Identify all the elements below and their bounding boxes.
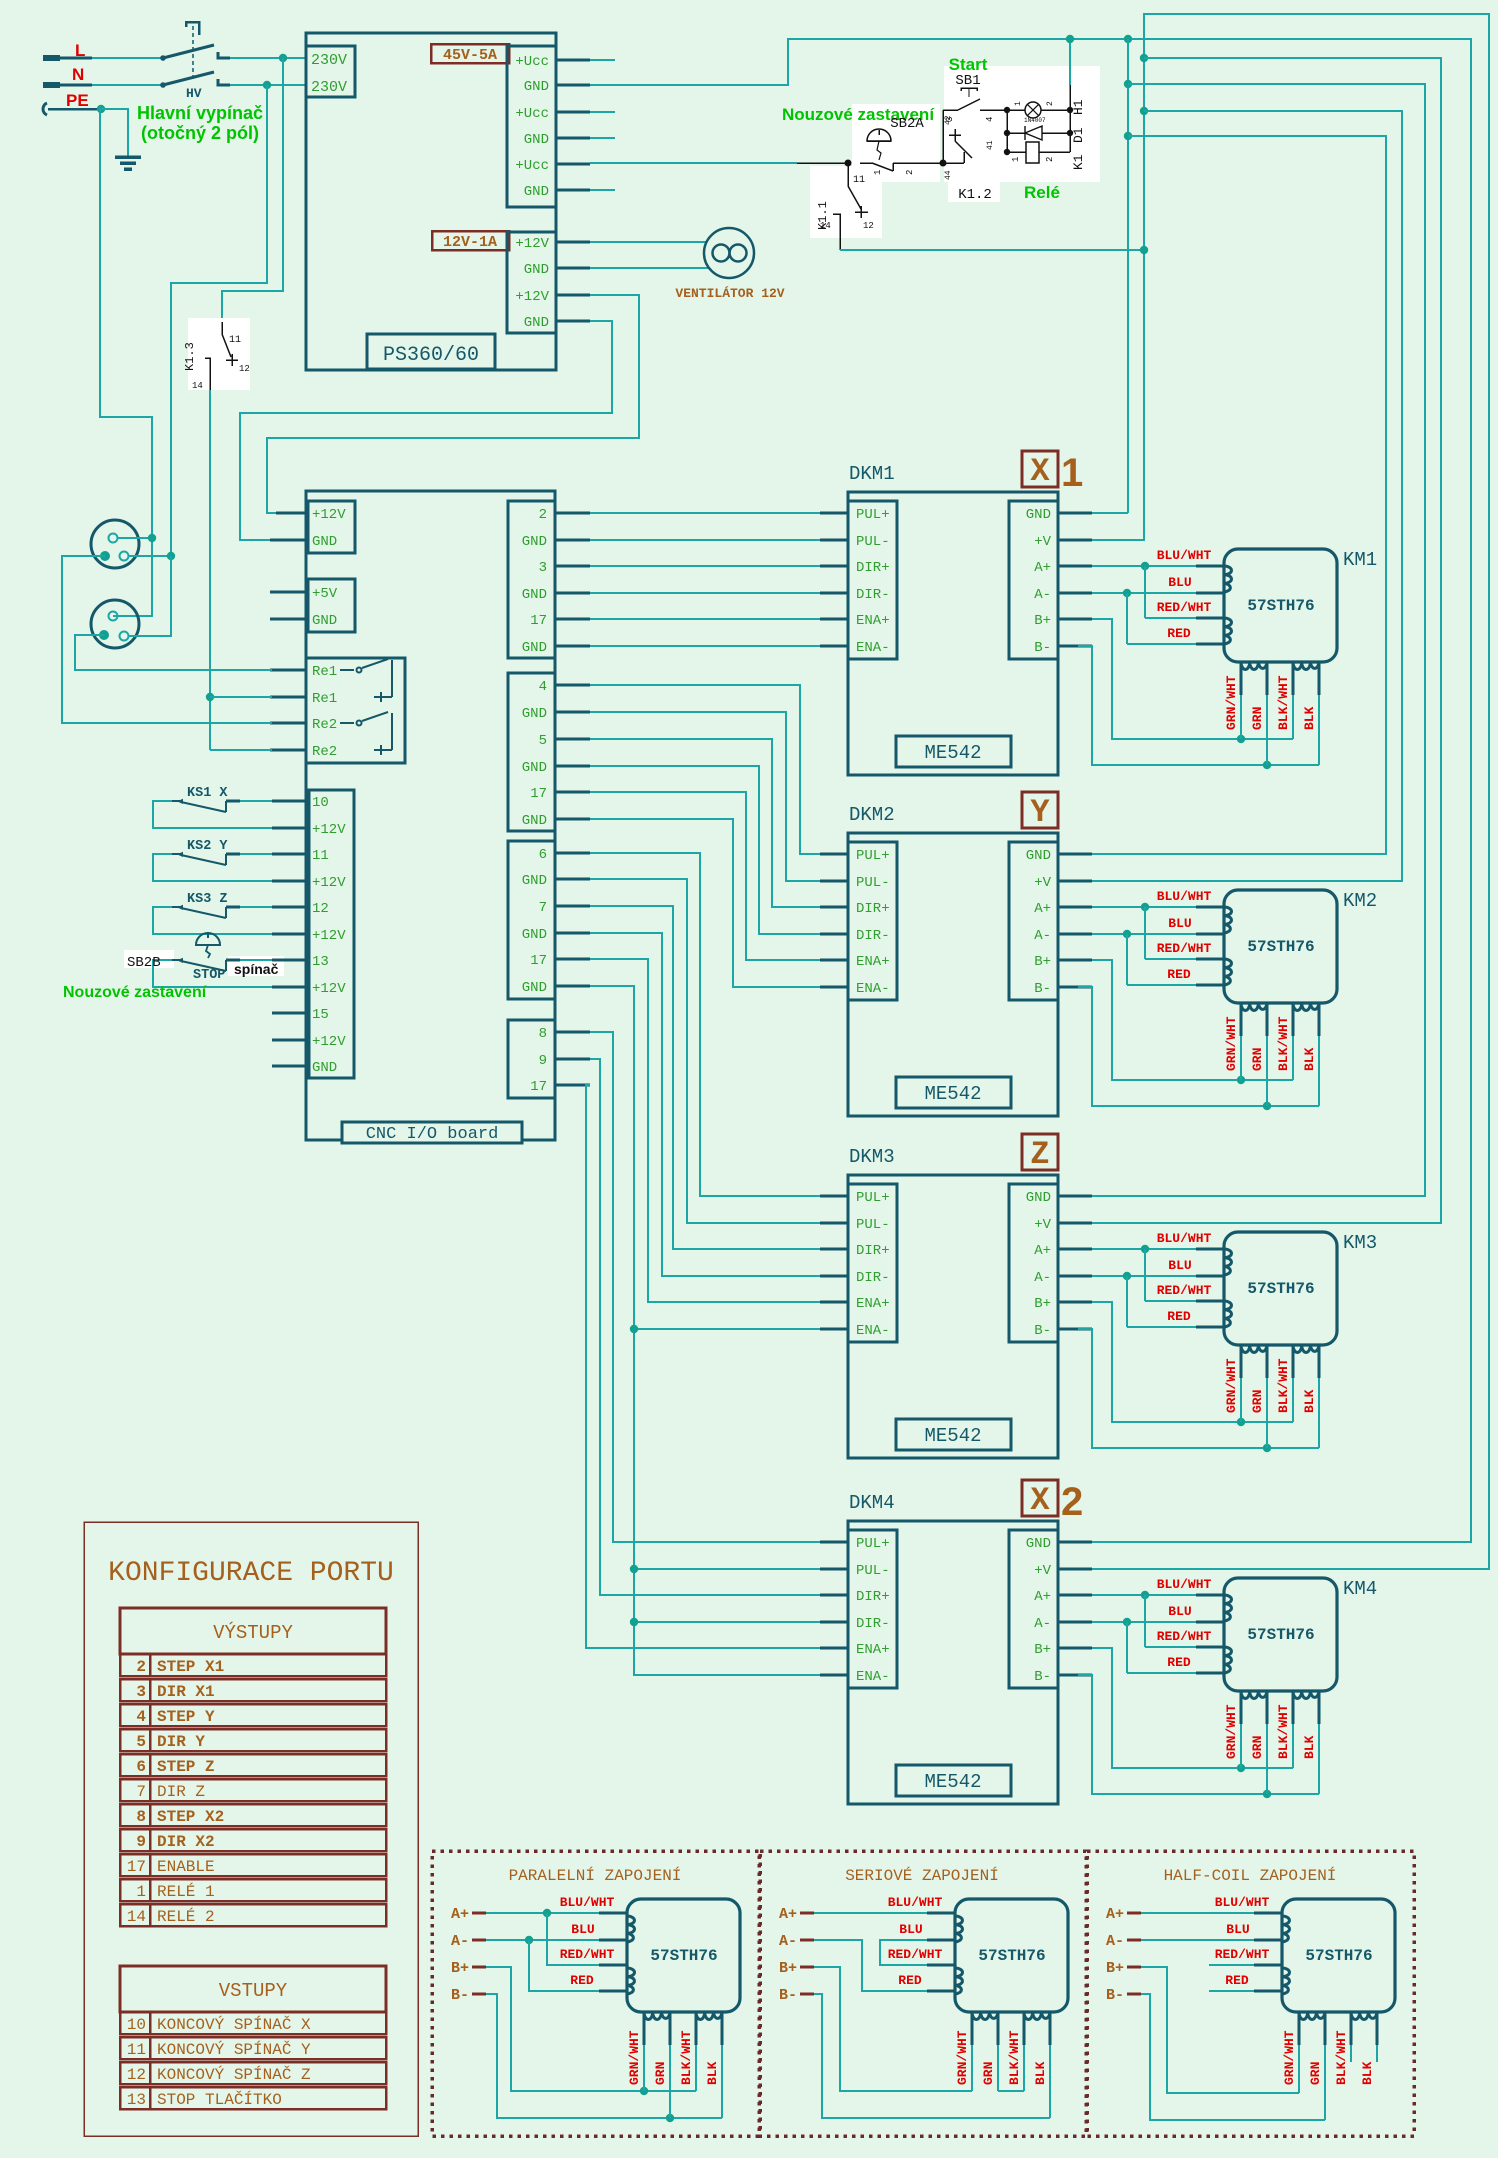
svg-text:A+: A+ bbox=[1106, 1906, 1124, 1923]
svg-text:57STH76: 57STH76 bbox=[1305, 1947, 1372, 1965]
wire motor BLK lead bbox=[1318, 662, 1321, 695]
svg-text:spínač: spínač bbox=[234, 961, 279, 977]
svg-text:230V: 230V bbox=[311, 79, 347, 96]
svg-text:B+: B+ bbox=[1106, 1960, 1124, 1977]
svg-text:RED: RED bbox=[1167, 1309, 1191, 1324]
wire output 933 to DKM3 1276 bbox=[590, 933, 820, 1276]
wire GND stub 2 bbox=[590, 137, 615, 139]
wire output 819 to DKM2 987 bbox=[590, 819, 820, 987]
svg-text:GND: GND bbox=[312, 534, 337, 550]
junction variant1 B- bbox=[666, 2114, 674, 2122]
svg-text:5: 5 bbox=[539, 733, 547, 749]
wire L input bbox=[43, 55, 60, 61]
wire variant1 motor lead bbox=[669, 2012, 672, 2045]
junction N branch bbox=[263, 81, 271, 89]
wire variant1 A- branch bbox=[529, 1940, 599, 1991]
svg-text:GND: GND bbox=[522, 706, 547, 722]
pushbutton SB2A emergency stop bbox=[867, 129, 891, 141]
svg-text:Re1: Re1 bbox=[312, 664, 337, 680]
svg-text:H1: H1 bbox=[1071, 99, 1086, 115]
svg-text:GRN: GRN bbox=[1250, 1048, 1265, 1071]
svg-text:SERIOVÉ ZAPOJENÍ: SERIOVÉ ZAPOJENÍ bbox=[845, 1866, 999, 1885]
wire B+ bus bbox=[1089, 1647, 1091, 1649]
svg-text:11: 11 bbox=[312, 848, 329, 864]
svg-text:15: 15 bbox=[312, 1007, 329, 1023]
motor coil D bbox=[1351, 2012, 1377, 2020]
svg-text:RED/WHT: RED/WHT bbox=[888, 1947, 943, 1962]
junction A+ branch bbox=[1141, 903, 1149, 911]
svg-text:RED/WHT: RED/WHT bbox=[1215, 1947, 1270, 1962]
junction +V DKM3 tap bbox=[1140, 54, 1148, 62]
svg-text:KONCOVÝ SPÍNAČ X: KONCOVÝ SPÍNAČ X bbox=[157, 2015, 311, 2034]
svg-text:3: 3 bbox=[539, 560, 547, 576]
wire motor BLK/WHT lead bbox=[1292, 1691, 1295, 1724]
svg-text:BLK/WHT: BLK/WHT bbox=[1276, 1704, 1291, 1759]
svg-text:GRN: GRN bbox=[981, 2062, 996, 2085]
wire variant1 motor lead bbox=[695, 2012, 698, 2045]
+V rail vertical bbox=[1092, 14, 1489, 1569]
wire variant1 A+ branch bbox=[547, 1913, 599, 1965]
stepper motor 57STH76 body bbox=[627, 1899, 740, 2012]
svg-text:BLU/WHT: BLU/WHT bbox=[1157, 1577, 1212, 1592]
svg-text:GND: GND bbox=[522, 760, 547, 776]
svg-text:8: 8 bbox=[136, 1808, 146, 1826]
relay contact K1.2 bbox=[942, 110, 944, 163]
svg-text:DIR X1: DIR X1 bbox=[157, 1683, 215, 1701]
junction GND DKM4 PUL- bbox=[630, 1565, 638, 1573]
svg-text:A-: A- bbox=[1034, 928, 1051, 944]
svg-text:+Ucc: +Ucc bbox=[515, 158, 549, 174]
svg-text:11: 11 bbox=[853, 175, 865, 186]
svg-text:DKM4: DKM4 bbox=[849, 1492, 895, 1514]
pin box 45V output bbox=[507, 46, 556, 207]
svg-text:Re2: Re2 bbox=[312, 717, 337, 733]
svg-text:7: 7 bbox=[539, 900, 547, 916]
wire +12V to fan bbox=[590, 241, 706, 243]
svg-text:10: 10 bbox=[127, 2016, 146, 2034]
pin box +12V/GND bbox=[308, 501, 355, 553]
wire KS3 limit Z loop bbox=[153, 907, 272, 934]
junction A- branch bbox=[1123, 930, 1131, 938]
junction B- GRN bbox=[1263, 1102, 1271, 1110]
wire socket1 neutral to N rail bbox=[129, 555, 171, 557]
svg-text:ENA-: ENA- bbox=[856, 1669, 890, 1685]
svg-text:(otočný 2 pól): (otočný 2 pól) bbox=[141, 123, 259, 143]
svg-text:VÝSTUPY: VÝSTUPY bbox=[213, 1622, 293, 1644]
table row 17 ENABLE bbox=[120, 1854, 386, 1876]
pin box 12V output bbox=[507, 232, 556, 333]
wire motor BLK lead bbox=[1318, 1691, 1321, 1724]
stepper motor KM4 body bbox=[1224, 1578, 1337, 1691]
svg-text:Re2: Re2 bbox=[312, 744, 337, 760]
relay outputs box Re1/Re2 bbox=[306, 658, 405, 763]
svg-text:PUL-: PUL- bbox=[856, 1217, 890, 1233]
wire A- to motor bbox=[1092, 1621, 1196, 1623]
svg-text:GRN: GRN bbox=[1308, 2062, 1323, 2085]
wire A+ branch to coil B bbox=[1144, 1249, 1146, 1301]
ME542 label box DKM2 bbox=[896, 1077, 1011, 1108]
svg-text:GRN: GRN bbox=[653, 2062, 668, 2085]
svg-text:+12V: +12V bbox=[312, 928, 346, 944]
svg-text:44: 44 bbox=[944, 170, 953, 180]
svg-text:BLU: BLU bbox=[1168, 575, 1191, 590]
wire output 906 to DKM3 1249 bbox=[590, 906, 820, 1249]
junction A- branch bbox=[1123, 1618, 1131, 1626]
table row 9 DIR X2 bbox=[120, 1829, 386, 1851]
relay left rail bbox=[1006, 110, 1008, 152]
wire motor GRN/WHT lead bbox=[1240, 1345, 1243, 1378]
wire motor BLK/WHT lead bbox=[1292, 1345, 1295, 1378]
svg-text:4: 4 bbox=[136, 1708, 146, 1726]
wire B- bus bbox=[1091, 986, 1093, 988]
svg-text:2: 2 bbox=[905, 170, 915, 175]
svg-text:BLU: BLU bbox=[1168, 916, 1191, 931]
svg-text:12V-1A: 12V-1A bbox=[443, 234, 497, 251]
svg-text:B+: B+ bbox=[1034, 1642, 1051, 1658]
pin box DKM3 right bbox=[1009, 1184, 1058, 1342]
wire variant2 motor lead bbox=[971, 2012, 974, 2045]
wire GND shared rail to DKM3/DKM4 minus pins bbox=[590, 986, 820, 1675]
svg-text:GRN/WHT: GRN/WHT bbox=[1282, 2030, 1297, 2085]
socket connector 2 bbox=[91, 600, 139, 648]
svg-text:BLK: BLK bbox=[705, 2061, 720, 2085]
wire PE input bbox=[43, 103, 47, 115]
table row 10 KONCOVÝ SPÍNAČ X bbox=[120, 2012, 386, 2034]
svg-text:KM3: KM3 bbox=[1343, 1232, 1377, 1254]
wire PS GND up and over (GND net) bbox=[590, 39, 1471, 1542]
svg-text:K1: K1 bbox=[1071, 154, 1086, 170]
pin box DKM1 right bbox=[1009, 501, 1058, 659]
svg-text:17: 17 bbox=[530, 953, 547, 969]
wire output 685 to DKM2 854 bbox=[590, 685, 820, 854]
wire A- branch to coil B bbox=[1126, 934, 1128, 985]
junction B+ GRN/WHT bbox=[1237, 1076, 1245, 1084]
table row 6 STEP Z bbox=[120, 1754, 386, 1776]
wire B- bus bbox=[1091, 1674, 1093, 1676]
variant panel PARALELNI ZAPOJENI box bbox=[432, 1851, 759, 2136]
svg-text:KM4: KM4 bbox=[1343, 1578, 1377, 1600]
svg-text:GND: GND bbox=[312, 1060, 337, 1076]
motor coil D bbox=[696, 2012, 722, 2020]
pin box outputs 4-GND bbox=[508, 673, 555, 831]
motor coil B bbox=[1224, 618, 1232, 644]
svg-text:57STH76: 57STH76 bbox=[1247, 1626, 1314, 1644]
wire A- to motor bbox=[1092, 933, 1196, 935]
label SB2B background bbox=[124, 950, 174, 968]
wire output 712 to DKM2 881 bbox=[590, 712, 820, 881]
svg-text:B-: B- bbox=[1034, 1669, 1051, 1685]
svg-text:BLU/WHT: BLU/WHT bbox=[1157, 548, 1212, 563]
wire +Ucc to relay line bbox=[590, 162, 797, 164]
junction variant1 A+ bbox=[543, 1909, 551, 1917]
pin box DKM4 left bbox=[848, 1530, 897, 1688]
driver module DKM1 box bbox=[848, 492, 1058, 775]
svg-text:1: 1 bbox=[1011, 157, 1021, 162]
switch KS2 limit Y bbox=[152, 853, 172, 855]
svg-text:Hlavní vypínač: Hlavní vypínač bbox=[137, 103, 263, 123]
svg-text:K1.3: K1.3 bbox=[183, 342, 197, 371]
svg-text:BLK: BLK bbox=[1302, 706, 1317, 730]
svg-text:13: 13 bbox=[312, 954, 329, 970]
svg-text:1N4007: 1N4007 bbox=[1024, 117, 1046, 124]
wire K1.1 output to +V rail bbox=[840, 249, 1144, 251]
svg-text:9: 9 bbox=[136, 1833, 146, 1851]
svg-text:ENA+: ENA+ bbox=[856, 1296, 890, 1312]
wire variant3 B- bbox=[1141, 1994, 1325, 2120]
table row 12 KONCOVÝ SPÍNAČ Z bbox=[120, 2062, 386, 2084]
svg-text:A-: A- bbox=[1034, 587, 1051, 603]
svg-text:HALF-COIL ZAPOJENÍ: HALF-COIL ZAPOJENÍ bbox=[1164, 1866, 1337, 1885]
svg-text:GND: GND bbox=[522, 534, 547, 550]
svg-text:STEP Z: STEP Z bbox=[157, 1758, 215, 1776]
svg-text:SB2A: SB2A bbox=[890, 116, 924, 132]
relay contact K1.3 background bbox=[188, 318, 250, 390]
svg-text:DIR-: DIR- bbox=[856, 1616, 890, 1632]
svg-text:N: N bbox=[72, 65, 84, 84]
svg-text:GND: GND bbox=[522, 640, 547, 656]
svg-text:RED: RED bbox=[570, 1973, 594, 1988]
svg-text:4: 4 bbox=[985, 117, 995, 122]
junction B- GRN bbox=[1263, 1444, 1271, 1452]
svg-text:GRN/WHT: GRN/WHT bbox=[1224, 1704, 1239, 1759]
junction relay K1.1 tap bbox=[845, 160, 852, 167]
pin box DKM4 right bbox=[1009, 1530, 1058, 1688]
svg-text:RED: RED bbox=[1167, 967, 1191, 982]
svg-text:BLK: BLK bbox=[1033, 2061, 1048, 2085]
svg-text:ENA-: ENA- bbox=[856, 640, 890, 656]
svg-text:GRN/WHT: GRN/WHT bbox=[955, 2030, 970, 2085]
svg-text:DIR-: DIR- bbox=[856, 1270, 890, 1286]
wire motor BLK lead bbox=[1318, 1345, 1321, 1378]
svg-text:57STH76: 57STH76 bbox=[978, 1947, 1045, 1965]
table row 5 DIR Y bbox=[120, 1729, 386, 1751]
svg-text:DIR+: DIR+ bbox=[856, 1243, 890, 1259]
motor coil A bbox=[955, 1916, 963, 1942]
wire output row 593 to DKM1 bbox=[590, 592, 820, 594]
svg-text:X: X bbox=[1030, 1482, 1050, 1519]
svg-text:KONFIGURACE PORTU: KONFIGURACE PORTU bbox=[108, 1558, 394, 1589]
motor coil D bbox=[1024, 2012, 1050, 2020]
wire output 1032 to DKM4 1542 bbox=[590, 1032, 820, 1542]
wire output 739 to DKM2 907 bbox=[590, 739, 820, 907]
table row 1 RELÉ 1 bbox=[120, 1879, 386, 1901]
pin box outputs 6-GND bbox=[508, 841, 555, 999]
switch KS3 limit Z bbox=[152, 906, 172, 908]
driver module DKM3 box bbox=[848, 1175, 1058, 1458]
pin box +5V/GND bbox=[308, 579, 355, 632]
svg-text:B-: B- bbox=[1034, 981, 1051, 997]
relay contact Re2 symbol bbox=[340, 722, 354, 724]
wire A+ to motor bbox=[1092, 565, 1196, 567]
motor coil C bbox=[1241, 1691, 1267, 1699]
pin box DKM1 left bbox=[848, 501, 897, 659]
motor coil A bbox=[1224, 907, 1232, 933]
svg-text:Nouzové zastavení: Nouzové zastavení bbox=[63, 984, 207, 1001]
svg-text:B+: B+ bbox=[1034, 954, 1051, 970]
svg-text:GND: GND bbox=[1026, 848, 1051, 864]
svg-text:GND: GND bbox=[522, 587, 547, 603]
svg-text:13: 13 bbox=[127, 2091, 146, 2109]
svg-text:GND: GND bbox=[1026, 1190, 1051, 1206]
svg-text:STEP Y: STEP Y bbox=[157, 1708, 215, 1726]
switch SB2B stop button bbox=[152, 959, 172, 961]
wire motor GRN/WHT lead bbox=[1240, 662, 1243, 695]
table row 11 KONCOVÝ SPÍNAČ Y bbox=[120, 2037, 386, 2059]
svg-text:PUL-: PUL- bbox=[856, 875, 890, 891]
svg-text:BLU: BLU bbox=[1168, 1604, 1191, 1619]
motor coil A bbox=[1224, 1249, 1232, 1275]
svg-text:DIR+: DIR+ bbox=[856, 1589, 890, 1605]
junction A- branch bbox=[1123, 1272, 1131, 1280]
junction GND rail top bbox=[1066, 35, 1074, 43]
svg-text:Y: Y bbox=[1030, 794, 1050, 831]
wire variant3 BLK stub bbox=[1376, 2012, 1379, 2045]
svg-text:+V: +V bbox=[1034, 534, 1051, 550]
svg-text:DKM2: DKM2 bbox=[849, 804, 895, 826]
svg-text:BLU: BLU bbox=[1226, 1922, 1249, 1937]
configuration table outer frame bbox=[84, 1522, 418, 2136]
motor coil C bbox=[1241, 662, 1267, 670]
svg-text:HV: HV bbox=[186, 86, 202, 101]
wire A+ branch to coil B bbox=[1144, 907, 1146, 959]
pin box DKM2 left bbox=[848, 842, 897, 1000]
svg-text:BLU/WHT: BLU/WHT bbox=[560, 1895, 615, 1910]
wire variant2 B- bbox=[814, 1994, 1050, 2118]
svg-text:BLU/WHT: BLU/WHT bbox=[888, 1895, 943, 1910]
wire +Ucc stub 2 bbox=[590, 111, 615, 113]
wire variant3 A- bbox=[1141, 1939, 1254, 1941]
svg-text:6: 6 bbox=[539, 847, 547, 863]
svg-text:KS2 Y: KS2 Y bbox=[187, 839, 228, 854]
wire output row 619 to DKM1 bbox=[590, 618, 820, 620]
table VSTUPY header bbox=[120, 1966, 386, 2012]
svg-text:RED: RED bbox=[898, 1973, 922, 1988]
svg-text:+12V: +12V bbox=[312, 981, 346, 997]
wire socket1 shell to PE bbox=[118, 537, 152, 539]
svg-text:11: 11 bbox=[229, 335, 241, 346]
table row 2 STEP X1 bbox=[120, 1654, 386, 1676]
svg-text:GND: GND bbox=[524, 79, 549, 95]
svg-text:14: 14 bbox=[192, 381, 203, 391]
svg-text:17: 17 bbox=[530, 786, 547, 802]
motor coil C bbox=[1299, 2012, 1325, 2020]
svg-text:RED/WHT: RED/WHT bbox=[1157, 941, 1212, 956]
svg-text:1: 1 bbox=[1014, 101, 1023, 106]
svg-text:PARALELNÍ ZAPOJENÍ: PARALELNÍ ZAPOJENÍ bbox=[509, 1866, 682, 1885]
CNC I/O board label box bbox=[342, 1122, 522, 1143]
svg-text:GND: GND bbox=[524, 184, 549, 200]
junction A+ branch bbox=[1141, 562, 1149, 570]
wire motor BLK/WHT lead bbox=[1292, 1003, 1295, 1036]
wire PE rail down bbox=[100, 109, 152, 616]
stepper motor 57STH76 body bbox=[1282, 1899, 1395, 2012]
motor coil B bbox=[1282, 1968, 1290, 1994]
motor coil A bbox=[1282, 1916, 1290, 1942]
svg-text:B+: B+ bbox=[451, 1960, 469, 1977]
svg-text:GRN: GRN bbox=[1250, 1390, 1265, 1413]
fan motor symbol bbox=[704, 228, 754, 278]
svg-text:B-: B- bbox=[1034, 1323, 1051, 1339]
svg-text:+V: +V bbox=[1034, 1563, 1051, 1579]
junction B+ GRN/WHT bbox=[1237, 1418, 1245, 1426]
wire output row 566 to DKM1 bbox=[590, 565, 820, 567]
wire output 959 to DKM3 1302 bbox=[590, 959, 820, 1302]
svg-text:Re1: Re1 bbox=[312, 691, 337, 707]
pin box outputs 2-GND bbox=[508, 501, 555, 658]
CNC I/O board box bbox=[306, 491, 555, 1140]
svg-text:+12V: +12V bbox=[312, 507, 346, 523]
motor coil C bbox=[644, 2012, 670, 2020]
wire socket2 live to Re1 bbox=[75, 635, 306, 670]
motor coil D bbox=[1293, 1691, 1319, 1699]
svg-text:K1.2: K1.2 bbox=[958, 187, 992, 203]
svg-text:230V: 230V bbox=[311, 52, 347, 69]
junction variant1 B+ bbox=[640, 2087, 648, 2095]
svg-text:2: 2 bbox=[1061, 1480, 1083, 1524]
svg-text:RED: RED bbox=[1167, 626, 1191, 641]
svg-text:+V: +V bbox=[1034, 1217, 1051, 1233]
power supply PS360/60 box bbox=[306, 33, 556, 370]
svg-text:3: 3 bbox=[945, 117, 955, 122]
wire A+ branch to coil B bbox=[1144, 1595, 1146, 1647]
motor coil B bbox=[1224, 959, 1232, 985]
driver module DKM4 box bbox=[848, 1521, 1058, 1804]
svg-text:57STH76: 57STH76 bbox=[1247, 938, 1314, 956]
wire B- bus bbox=[1091, 1328, 1093, 1330]
junction GND DKM2 tap bbox=[1124, 132, 1132, 140]
wire +Ucc stub 1 bbox=[590, 59, 615, 61]
stepper motor 57STH76 body bbox=[955, 1899, 1068, 2012]
socket connector 1 bbox=[91, 520, 139, 568]
svg-text:RED: RED bbox=[1167, 1655, 1191, 1670]
svg-text:B-: B- bbox=[451, 1987, 469, 2004]
wire variant2 GRN-BLKWHT link bbox=[998, 2090, 1024, 2092]
svg-text:RED/WHT: RED/WHT bbox=[1157, 1283, 1212, 1298]
svg-text:GND: GND bbox=[522, 813, 547, 829]
wire GND stub 3 bbox=[590, 189, 615, 191]
svg-text:B-: B- bbox=[1034, 640, 1051, 656]
table row 3 DIR X1 bbox=[120, 1679, 386, 1701]
switch HV main switch (pole L) bbox=[160, 55, 166, 61]
wire motor GRN/WHT lead bbox=[1240, 1003, 1243, 1036]
connector label ZNone box bbox=[1022, 1134, 1058, 1170]
wire variant1 B- bbox=[486, 1994, 722, 2118]
svg-text:RED/WHT: RED/WHT bbox=[1157, 1629, 1212, 1644]
svg-text:PUL+: PUL+ bbox=[856, 1190, 890, 1206]
wire B+ bus bbox=[1089, 618, 1091, 620]
svg-text:B-: B- bbox=[1106, 1987, 1124, 2004]
wire variant3 GRN lead bbox=[1324, 2012, 1327, 2045]
table row 4 STEP Y bbox=[120, 1704, 386, 1726]
variant panel SERIOVE ZAPOJENI box bbox=[760, 1851, 1086, 2136]
svg-text:RED/WHT: RED/WHT bbox=[1157, 600, 1212, 615]
svg-text:2: 2 bbox=[1045, 157, 1055, 162]
svg-text:SB2B: SB2B bbox=[127, 955, 161, 971]
svg-text:D1: D1 bbox=[1071, 127, 1086, 143]
wire +V to DKM3 bbox=[1092, 58, 1441, 1223]
svg-text:BLK/WHT: BLK/WHT bbox=[1276, 675, 1291, 730]
svg-text:DIR-: DIR- bbox=[856, 928, 890, 944]
svg-text:9: 9 bbox=[539, 1053, 547, 1069]
svg-text:A-: A- bbox=[779, 1933, 797, 1950]
motor coil D bbox=[1293, 662, 1319, 670]
svg-text:17: 17 bbox=[530, 613, 547, 629]
motor coil D bbox=[1293, 1003, 1319, 1011]
motor coil C bbox=[1241, 1345, 1267, 1353]
wire GND to DKM2 bbox=[1092, 853, 1128, 855]
svg-text:+12V: +12V bbox=[515, 289, 549, 305]
wire N input bbox=[43, 82, 60, 88]
